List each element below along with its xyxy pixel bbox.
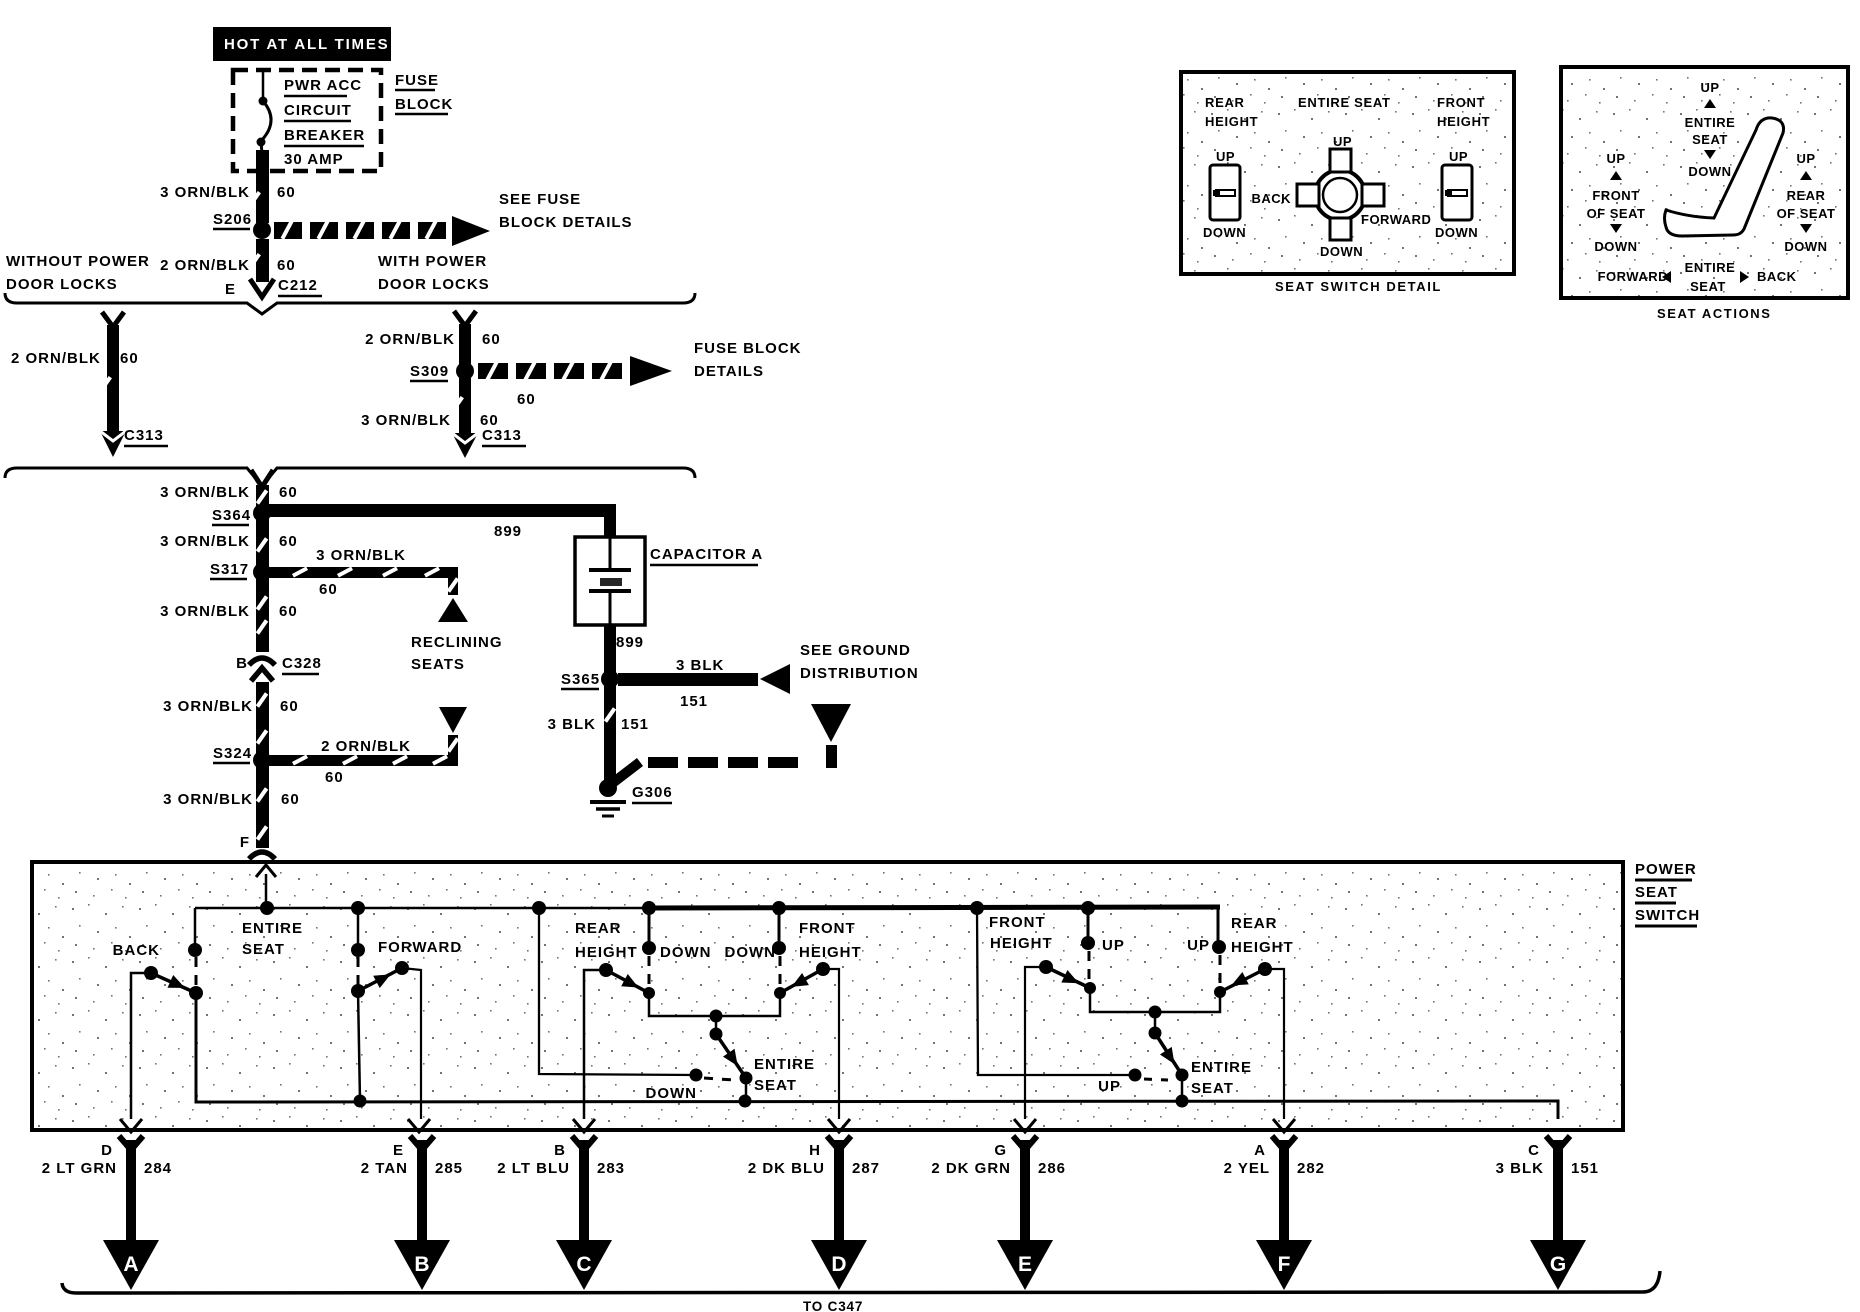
svg-text:ENTIRE: ENTIRE	[242, 920, 303, 937]
svg-text:283: 283	[597, 1160, 625, 1177]
svg-text:A: A	[123, 1253, 138, 1276]
svg-text:S324: S324	[213, 745, 252, 762]
capacitor A	[575, 537, 763, 625]
svg-text:BACK: BACK	[1251, 191, 1291, 206]
svg-text:UP: UP	[1796, 151, 1815, 166]
svg-text:REAR: REAR	[1231, 915, 1278, 932]
svg-text:3 BLK: 3 BLK	[676, 657, 724, 674]
svg-text:SEAT SWITCH DETAIL: SEAT SWITCH DETAIL	[1275, 279, 1442, 294]
svg-text:E: E	[393, 1142, 404, 1159]
svg-text:60: 60	[279, 603, 298, 620]
svg-text:3 ORN/BLK: 3 ORN/BLK	[160, 484, 250, 501]
svg-text:HEIGHT: HEIGHT	[1205, 114, 1258, 129]
svg-text:BACK: BACK	[113, 942, 160, 959]
trunk wire from brace to power seat switch	[251, 470, 273, 848]
svg-text:HEIGHT: HEIGHT	[990, 935, 1053, 952]
svg-text:E: E	[1018, 1253, 1032, 1276]
svg-text:UP: UP	[1187, 937, 1210, 954]
svg-text:G: G	[994, 1142, 1007, 1159]
svg-text:285: 285	[435, 1160, 463, 1177]
svg-text:282: 282	[1297, 1160, 1325, 1177]
svg-text:UP: UP	[1449, 149, 1468, 164]
svg-text:3 ORN/BLK: 3 ORN/BLK	[160, 603, 250, 620]
svg-text:2 LT BLU: 2 LT BLU	[497, 1160, 570, 1177]
svg-text:G: G	[1550, 1253, 1566, 1276]
wire 3 ORN/BLK 60	[160, 171, 296, 223]
seat profile graphic	[1665, 118, 1784, 236]
svg-text:E: E	[225, 281, 236, 298]
svg-text:S365: S365	[561, 671, 600, 688]
svg-text:UP: UP	[1606, 151, 1625, 166]
terminal C / wire 3 BLK 151 / connector arrow G	[1496, 1136, 1599, 1290]
svg-text:60: 60	[325, 769, 344, 786]
svg-text:60: 60	[482, 331, 501, 348]
svg-text:WITHOUT POWER: WITHOUT POWER	[6, 253, 150, 270]
splice S206	[213, 211, 271, 239]
dashed arrow to fuse block details	[478, 340, 802, 408]
seat actions inset	[1561, 67, 1848, 321]
svg-text:286: 286	[1038, 1160, 1066, 1177]
reclining seats label	[411, 634, 503, 673]
svg-text:BACK: BACK	[1757, 269, 1797, 284]
label 3 ORN/BLK 60	[163, 791, 300, 808]
svg-text:B: B	[554, 1142, 566, 1159]
svg-text:60: 60	[277, 184, 296, 201]
svg-text:3 ORN/BLK: 3 ORN/BLK	[316, 547, 406, 564]
svg-text:FORWARD: FORWARD	[1598, 269, 1668, 284]
label 3 ORN/BLK 60	[160, 533, 298, 550]
rear height rocker	[1210, 165, 1240, 220]
svg-text:OF SEAT: OF SEAT	[1587, 206, 1646, 221]
svg-text:30 AMP: 30 AMP	[284, 151, 344, 168]
svg-text:A: A	[1254, 1142, 1266, 1159]
splice S324	[213, 745, 271, 769]
entire seat 4-way knob	[1315, 170, 1365, 220]
svg-text:DOWN: DOWN	[1435, 225, 1478, 240]
svg-text:SEAT: SEAT	[1692, 132, 1728, 147]
svg-text:DETAILS: DETAILS	[694, 363, 764, 380]
svg-text:DOOR LOCKS: DOOR LOCKS	[6, 276, 118, 293]
svg-text:SEAT: SEAT	[754, 1077, 797, 1094]
switch: front height down	[725, 920, 862, 961]
svg-text:HOT AT ALL TIMES: HOT AT ALL TIMES	[224, 36, 389, 53]
svg-text:60: 60	[120, 350, 139, 367]
svg-text:SEAT: SEAT	[1690, 279, 1726, 294]
svg-text:CAPACITOR A: CAPACITOR A	[650, 546, 763, 563]
svg-text:FRONT: FRONT	[989, 914, 1046, 931]
dashed arrow to fuse block details	[274, 191, 633, 246]
svg-text:DOWN: DOWN	[1203, 225, 1246, 240]
svg-text:S317: S317	[210, 561, 249, 578]
svg-text:3 ORN/BLK: 3 ORN/BLK	[361, 412, 451, 429]
svg-text:2 ORN/BLK: 2 ORN/BLK	[365, 331, 455, 348]
svg-text:899: 899	[494, 523, 522, 540]
svg-text:FRONT: FRONT	[1592, 188, 1639, 203]
svg-text:3 ORN/BLK: 3 ORN/BLK	[163, 698, 253, 715]
svg-text:HEIGHT: HEIGHT	[1437, 114, 1490, 129]
svg-text:SWITCH: SWITCH	[1635, 907, 1700, 924]
entire seat up/down switch (right)	[977, 908, 1252, 1101]
svg-text:DOOR LOCKS: DOOR LOCKS	[378, 276, 490, 293]
terminal H / wire 2 DK BLU 287 / connector arrow D	[748, 1136, 880, 1290]
svg-text:60: 60	[319, 581, 338, 598]
svg-text:DOWN: DOWN	[725, 944, 777, 961]
switch: rear height up	[1187, 905, 1295, 1132]
svg-text:BREAKER: BREAKER	[284, 127, 365, 144]
svg-text:C: C	[1528, 1142, 1540, 1159]
svg-text:3 ORN/BLK: 3 ORN/BLK	[160, 533, 250, 550]
svg-text:F: F	[1278, 1253, 1291, 1276]
svg-text:F: F	[240, 834, 250, 851]
terminal D / wire 2 LT GRN 284 / connector arrow A	[42, 1136, 172, 1290]
wire 2 ORN/BLK 60 from reclining seats	[268, 707, 467, 786]
svg-text:3 ORN/BLK: 3 ORN/BLK	[163, 791, 253, 808]
wire 3 ORN/BLK 60 to reclining seats	[268, 547, 468, 622]
svg-text:151: 151	[680, 693, 708, 710]
svg-text:ENTIRE: ENTIRE	[1685, 115, 1736, 130]
wire 899 to capacitor A	[268, 504, 616, 540]
svg-text:SEAT ACTIONS: SEAT ACTIONS	[1657, 306, 1772, 321]
svg-text:WITH POWER: WITH POWER	[378, 253, 487, 270]
svg-text:PWR ACC: PWR ACC	[284, 77, 362, 94]
terminal B / wire 2 LT BLU 283 / connector arrow C	[497, 1136, 625, 1290]
svg-text:S309: S309	[410, 363, 449, 380]
svg-text:ENTIRE: ENTIRE	[1191, 1059, 1252, 1076]
feed bus wire	[195, 907, 660, 910]
svg-text:2 ORN/BLK: 2 ORN/BLK	[160, 257, 250, 274]
svg-text:3 BLK: 3 BLK	[1496, 1160, 1544, 1177]
svg-text:UP: UP	[1102, 937, 1125, 954]
dashed ground wire to distribution arrow	[610, 704, 851, 785]
svg-text:SEATS: SEATS	[411, 656, 465, 673]
svg-text:SEE GROUND: SEE GROUND	[800, 642, 911, 659]
svg-text:60: 60	[281, 791, 300, 808]
switch: forward	[351, 908, 462, 1132]
svg-text:287: 287	[852, 1160, 880, 1177]
branch wire to splice S309 (with power door locks)	[365, 311, 501, 381]
seat switch detail inset	[1181, 72, 1514, 294]
svg-text:S206: S206	[213, 211, 252, 228]
svg-text:C313: C313	[124, 427, 164, 444]
svg-text:UP: UP	[1098, 1078, 1121, 1095]
svg-text:ENTIRE SEAT: ENTIRE SEAT	[1298, 95, 1391, 110]
svg-text:POWER: POWER	[1635, 861, 1697, 878]
terminal A / wire 2 YEL 282 / connector arrow F	[1224, 1136, 1325, 1290]
svg-text:151: 151	[1571, 1160, 1599, 1177]
svg-text:CIRCUIT: CIRCUIT	[284, 102, 352, 119]
svg-text:REAR: REAR	[1787, 188, 1826, 203]
svg-text:BLOCK: BLOCK	[395, 96, 453, 113]
svg-text:60: 60	[280, 698, 299, 715]
power seat switch box	[32, 862, 1623, 1130]
terminal E / wire 2 TAN 285 / connector arrow B	[361, 1136, 463, 1290]
svg-text:2 TAN: 2 TAN	[361, 1160, 408, 1177]
connector C328 pin B	[236, 655, 322, 681]
svg-text:C328: C328	[282, 655, 322, 672]
svg-text:HEIGHT: HEIGHT	[799, 944, 862, 961]
svg-text:HEIGHT: HEIGHT	[1231, 939, 1294, 956]
svg-text:DISTRIBUTION: DISTRIBUTION	[800, 665, 919, 682]
switch: rear height down	[573, 908, 712, 1132]
splice S365	[561, 670, 619, 689]
svg-text:2 DK BLU: 2 DK BLU	[748, 1160, 825, 1177]
connector F into power seat switch	[240, 834, 276, 908]
entire seat up/down switch (left)	[539, 908, 815, 1102]
svg-text:284: 284	[144, 1160, 172, 1177]
svg-text:60: 60	[277, 257, 296, 274]
svg-text:60: 60	[517, 391, 536, 408]
terminal G / wire 2 DK GRN 286 / connector arrow E	[931, 1136, 1066, 1290]
svg-text:TO C347: TO C347	[803, 1299, 863, 1312]
svg-text:UP: UP	[1216, 149, 1235, 164]
svg-text:2 ORN/BLK: 2 ORN/BLK	[11, 350, 101, 367]
svg-text:2 YEL: 2 YEL	[1224, 1160, 1270, 1177]
wire 899 below capacitor	[604, 625, 644, 679]
svg-text:S364: S364	[212, 507, 251, 524]
wire 3 BLK 151 to ground distribution	[618, 657, 790, 710]
svg-text:H: H	[809, 1142, 821, 1159]
svg-text:151: 151	[621, 716, 649, 733]
svg-text:D: D	[831, 1253, 846, 1276]
entire seat fore/aft label	[242, 920, 303, 958]
svg-text:2 DK GRN: 2 DK GRN	[931, 1160, 1011, 1177]
svg-text:RECLINING: RECLINING	[411, 634, 503, 651]
svg-text:60: 60	[279, 484, 298, 501]
splice S364	[212, 504, 271, 525]
svg-text:SEAT: SEAT	[1191, 1080, 1234, 1097]
svg-text:2 LT GRN: 2 LT GRN	[42, 1160, 117, 1177]
svg-text:HEIGHT: HEIGHT	[575, 944, 638, 961]
svg-text:REAR: REAR	[575, 920, 622, 937]
svg-text:FUSE: FUSE	[395, 72, 439, 89]
wire 2 ORN/BLK 60 to connector C212 pin E	[160, 239, 322, 298]
svg-text:REAR: REAR	[1205, 95, 1245, 110]
bus junctions	[260, 901, 274, 915]
front height rocker	[1442, 165, 1472, 220]
label 3 ORN/BLK 60	[163, 698, 299, 715]
svg-text:BLOCK DETAILS: BLOCK DETAILS	[499, 214, 633, 231]
svg-text:UP: UP	[1700, 80, 1719, 95]
wire 3 ORN/BLK 60 to C313	[361, 378, 526, 458]
svg-text:ENTIRE: ENTIRE	[754, 1056, 815, 1073]
svg-text:D: D	[101, 1142, 113, 1159]
option brace bottom	[5, 468, 695, 486]
svg-text:FUSE BLOCK: FUSE BLOCK	[694, 340, 802, 357]
switch: front height up	[989, 908, 1125, 1132]
see ground distribution label	[800, 642, 919, 682]
svg-text:2 ORN/BLK: 2 ORN/BLK	[321, 738, 411, 755]
option brace top (without/with power door locks)	[5, 293, 695, 314]
wire 3 BLK 151 to G306	[548, 686, 649, 783]
svg-text:FORWARD: FORWARD	[1361, 212, 1431, 227]
switch: back	[113, 908, 203, 1132]
svg-text:B: B	[414, 1253, 429, 1276]
svg-text:C212: C212	[278, 277, 318, 294]
svg-text:C313: C313	[482, 427, 522, 444]
svg-text:60: 60	[279, 533, 298, 550]
svg-text:SEE FUSE: SEE FUSE	[499, 191, 581, 208]
fuse block (dashed)	[233, 70, 453, 171]
svg-text:FRONT: FRONT	[1437, 95, 1485, 110]
svg-text:899: 899	[616, 634, 644, 651]
svg-text:ENTIRE: ENTIRE	[1685, 260, 1736, 275]
label 3 ORN/BLK 60	[160, 484, 298, 501]
svg-text:3 BLK: 3 BLK	[548, 716, 596, 733]
svg-text:DOWN: DOWN	[1784, 239, 1827, 254]
svg-text:3 ORN/BLK: 3 ORN/BLK	[160, 184, 250, 201]
svg-text:FORWARD: FORWARD	[378, 939, 462, 956]
svg-text:DOWN: DOWN	[1594, 239, 1637, 254]
svg-text:B: B	[236, 655, 248, 672]
svg-text:G306: G306	[632, 784, 673, 801]
bracket to C347	[62, 1271, 1660, 1293]
circuit breaker PWR ACC 30 AMP	[256, 72, 365, 172]
ground G306	[590, 779, 673, 816]
svg-text:C: C	[576, 1253, 591, 1276]
svg-text:SEAT: SEAT	[1635, 884, 1678, 901]
svg-text:DOWN: DOWN	[660, 944, 712, 961]
motor return bus to terminal C	[196, 992, 1558, 1119]
svg-text:OF SEAT: OF SEAT	[1777, 206, 1836, 221]
power feed label HOT AT ALL TIMES	[213, 27, 391, 61]
svg-text:UP: UP	[1333, 134, 1352, 149]
branch wire 2 ORN/BLK 60 to C313 (without power door locks)	[11, 312, 168, 457]
splice S317	[210, 561, 271, 581]
svg-text:DOWN: DOWN	[1320, 244, 1363, 259]
svg-text:DOWN: DOWN	[1688, 164, 1731, 179]
svg-text:FRONT: FRONT	[799, 920, 856, 937]
svg-text:SEAT: SEAT	[242, 941, 285, 958]
power seat switch label	[1635, 861, 1700, 926]
svg-text:DOWN: DOWN	[646, 1085, 698, 1102]
label 3 ORN/BLK 60	[160, 603, 298, 620]
